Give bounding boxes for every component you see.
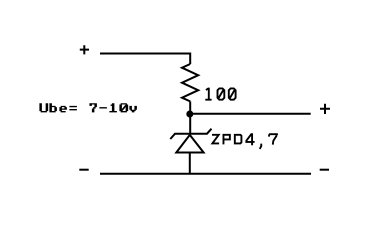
value label 100 — [205, 88, 235, 100]
zener diode D1 triangle (anode) — [176, 135, 203, 153]
label ZPD4,7 — [212, 133, 278, 149]
wire diode to bottom rail — [189, 153, 191, 174]
label Ube= 7-10v — [39, 103, 136, 112]
zener diode D1 cathode bar with ticks — [170, 129, 211, 139]
junction dot node — [186, 111, 193, 118]
resistor R (zigzag) — [182, 64, 198, 101]
node + (top-left plus terminal) — [80, 45, 89, 54]
node - (bottom-left minus terminal) — [79, 169, 88, 171]
zero slash — [121, 105, 126, 111]
wire top corner down to resistor — [189, 53, 191, 65]
wire middle horizontal to right + — [190, 113, 311, 115]
wire bottom rail — [100, 173, 311, 175]
node - (bottom-right minus terminal) — [320, 169, 329, 171]
node + (right plus terminal) — [320, 104, 330, 114]
wire top horizontal — [100, 53, 190, 55]
wire resistor to zener bar (through junction) — [189, 101, 191, 133]
